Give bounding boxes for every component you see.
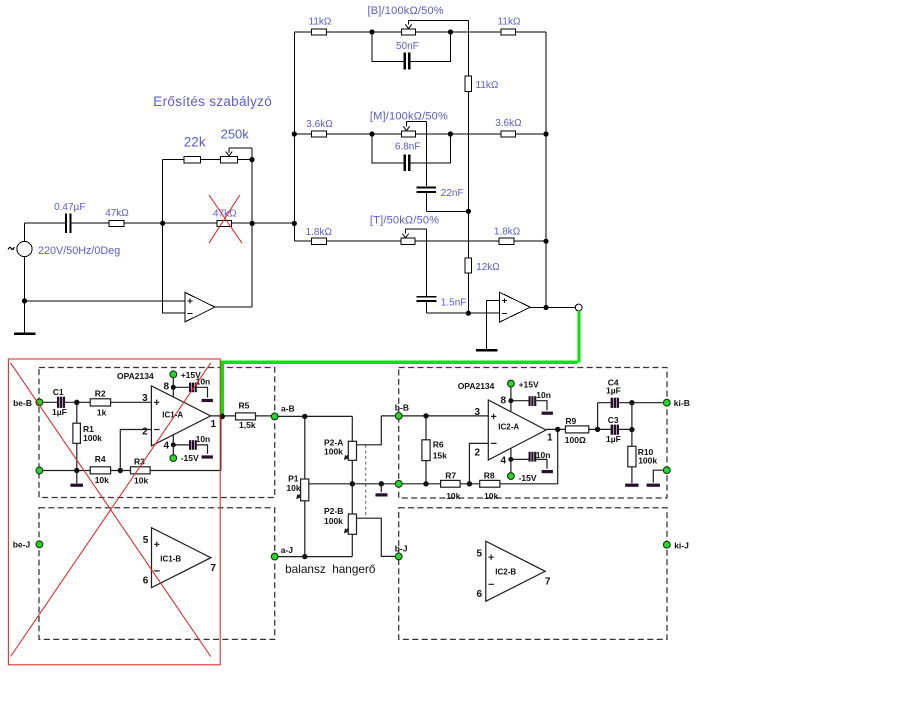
svg-text:6.8nF: 6.8nF bbox=[395, 142, 421, 153]
svg-text:47kΩ: 47kΩ bbox=[105, 208, 129, 219]
svg-text:OPA2134: OPA2134 bbox=[117, 371, 154, 381]
svg-text:C3: C3 bbox=[608, 415, 619, 425]
svg-text:6: 6 bbox=[477, 589, 483, 600]
svg-text:[B]/100kΩ/50%: [B]/100kΩ/50% bbox=[368, 5, 444, 17]
svg-text:3: 3 bbox=[142, 393, 148, 404]
svg-text:hangerő: hangerő bbox=[332, 562, 376, 576]
svg-text:be-J: be-J bbox=[13, 539, 31, 549]
svg-text:100k: 100k bbox=[83, 433, 102, 443]
svg-text:1,5k: 1,5k bbox=[239, 420, 256, 430]
svg-text:1: 1 bbox=[211, 419, 217, 430]
svg-text:10k: 10k bbox=[95, 475, 109, 485]
svg-text:22k: 22k bbox=[184, 135, 206, 150]
svg-text:10n: 10n bbox=[536, 390, 551, 400]
svg-text:P2-B: P2-B bbox=[324, 506, 343, 516]
svg-text:10k: 10k bbox=[446, 491, 460, 501]
svg-text:10k: 10k bbox=[286, 483, 300, 493]
svg-text:10n: 10n bbox=[196, 434, 211, 444]
svg-text:50nF: 50nF bbox=[396, 41, 419, 52]
svg-text:ki-J: ki-J bbox=[674, 541, 689, 551]
svg-text:0.47µF: 0.47µF bbox=[54, 202, 85, 213]
svg-text:8: 8 bbox=[501, 396, 507, 407]
svg-text:1.5nF: 1.5nF bbox=[441, 298, 467, 309]
svg-text:1k: 1k bbox=[97, 408, 107, 418]
svg-text:balansz: balansz bbox=[285, 562, 326, 576]
svg-text:R4: R4 bbox=[95, 454, 106, 464]
svg-text:2: 2 bbox=[142, 427, 148, 438]
svg-text:7: 7 bbox=[545, 576, 551, 587]
svg-text:100k: 100k bbox=[324, 516, 343, 526]
svg-text:10k: 10k bbox=[484, 491, 498, 501]
svg-text:1µF: 1µF bbox=[606, 434, 621, 444]
svg-text:11kΩ: 11kΩ bbox=[309, 17, 332, 28]
svg-text:R7: R7 bbox=[445, 471, 456, 481]
svg-text:6: 6 bbox=[143, 576, 149, 587]
svg-text:100k: 100k bbox=[638, 456, 657, 466]
svg-text:1.8kΩ: 1.8kΩ bbox=[306, 227, 333, 238]
svg-text:+15V: +15V bbox=[519, 380, 539, 390]
svg-text:5: 5 bbox=[143, 535, 149, 546]
svg-text:100k: 100k bbox=[324, 447, 343, 457]
svg-text:4: 4 bbox=[164, 440, 170, 451]
svg-text:Erősítés szabályzó: Erősítés szabályzó bbox=[153, 94, 272, 109]
svg-text:OPA2134: OPA2134 bbox=[458, 381, 495, 391]
svg-text:b-J: b-J bbox=[395, 544, 408, 554]
svg-text:2: 2 bbox=[475, 448, 481, 459]
svg-text:1µF: 1µF bbox=[606, 385, 621, 395]
svg-text:11kΩ: 11kΩ bbox=[476, 80, 499, 91]
svg-text:R6: R6 bbox=[433, 440, 444, 450]
svg-text:[M]/100kΩ/50%: [M]/100kΩ/50% bbox=[370, 110, 448, 122]
svg-text:IC2-B: IC2-B bbox=[495, 568, 516, 577]
svg-text:1µF: 1µF bbox=[52, 407, 67, 417]
svg-text:b-B: b-B bbox=[395, 403, 409, 413]
svg-text:10k: 10k bbox=[134, 476, 148, 486]
svg-text:12kΩ: 12kΩ bbox=[476, 262, 500, 273]
svg-text:100Ω: 100Ω bbox=[565, 435, 586, 445]
svg-text:ki-B: ki-B bbox=[674, 398, 690, 408]
svg-text:IC1-B: IC1-B bbox=[160, 555, 181, 564]
svg-text:C1: C1 bbox=[53, 387, 64, 397]
svg-text:IC2-A: IC2-A bbox=[498, 423, 519, 432]
svg-text:10n: 10n bbox=[536, 450, 551, 460]
svg-text:R5: R5 bbox=[239, 401, 250, 411]
svg-text:250k: 250k bbox=[221, 127, 250, 142]
svg-text:220V/50Hz/0Deg: 220V/50Hz/0Deg bbox=[38, 245, 120, 257]
svg-text:a-J: a-J bbox=[281, 545, 294, 555]
svg-text:1: 1 bbox=[547, 432, 553, 443]
svg-text:R9: R9 bbox=[565, 416, 576, 426]
svg-text:-15V: -15V bbox=[181, 453, 199, 463]
svg-text:8: 8 bbox=[164, 382, 170, 393]
svg-text:11kΩ: 11kΩ bbox=[498, 17, 521, 28]
svg-text:1.8kΩ: 1.8kΩ bbox=[494, 227, 521, 238]
svg-text:-15V: -15V bbox=[519, 473, 537, 483]
svg-text:a-B: a-B bbox=[281, 404, 295, 414]
svg-text:3.6kΩ: 3.6kΩ bbox=[495, 118, 522, 129]
svg-text:4: 4 bbox=[501, 456, 507, 467]
svg-text:15k: 15k bbox=[433, 451, 447, 461]
svg-text:be-B: be-B bbox=[13, 398, 32, 408]
svg-text:5: 5 bbox=[477, 548, 483, 559]
svg-text:R8: R8 bbox=[484, 471, 495, 481]
svg-text:22nF: 22nF bbox=[441, 188, 464, 199]
svg-text:3: 3 bbox=[475, 407, 481, 418]
svg-text:3.6kΩ: 3.6kΩ bbox=[306, 119, 333, 130]
svg-text:7: 7 bbox=[210, 563, 216, 574]
svg-text:[T]/50kΩ/50%: [T]/50kΩ/50% bbox=[370, 215, 439, 227]
svg-text:R2: R2 bbox=[95, 388, 106, 398]
